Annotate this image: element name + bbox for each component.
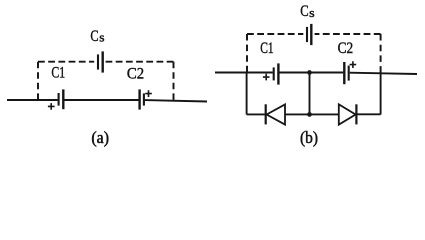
dashed box (circuit b), top-right segment (315, 33, 381, 35)
capacitor C2 (circuit b) (344, 61, 356, 84)
wire: circuit (b) bottom line, middle segment (285, 113, 339, 115)
svg-text:s: s (309, 6, 315, 20)
svg-text:C1: C1 (51, 65, 65, 82)
wire: circuit (b) rectifier loop left vertical (246, 73, 248, 115)
svg-text:C1: C1 (260, 40, 273, 57)
dashed equivalent-capacitance box (circuit b), left vertical wire (246, 34, 248, 73)
junction node: bottom of center branch (circuit b) (307, 112, 312, 117)
wire: circuit (b) bottom line, left segment (247, 113, 265, 115)
dashed box (circuit a), right vertical wire (173, 62, 175, 100)
wire: circuit (a) main line, left segment (7, 99, 58, 101)
wire: circuit (a) main line, right segment (145, 100, 207, 101)
dashed box (circuit b), right vertical wire (380, 34, 382, 73)
wire: circuit (b) rectifier loop right vertical (380, 73, 382, 114)
svg-text:C: C (300, 3, 308, 20)
dashed equivalent-capacitance box (circuit a), left vertical wire (37, 62, 39, 100)
wire: circuit (b) main line, right segment (350, 73, 417, 74)
svg-text:C2: C2 (338, 40, 354, 57)
capacitor C1 (circuit a) (48, 89, 63, 109)
svg-text:C2: C2 (127, 66, 144, 83)
wire: circuit (b) main line, middle segment between C1 and C2 (279, 72, 343, 74)
wire: circuit (b) bottom line, right segment (357, 113, 380, 115)
capacitor C1 (circuit b) (263, 63, 279, 84)
capacitor Cs (circuit b), in dashed top edge (307, 24, 311, 45)
svg-text:(a): (a) (91, 128, 109, 147)
svg-text:s: s (99, 31, 104, 45)
wire: circuit (b) center vertical branch (309, 73, 311, 115)
dashed box (circuit b), top-left segment (247, 33, 303, 35)
wire: circuit (b) main line, left segment (215, 72, 273, 74)
diode D1 (circuit b, left, pointing left) (266, 104, 285, 124)
svg-text:C: C (90, 28, 98, 45)
svg-text:(b): (b) (300, 128, 318, 147)
dashed box (circuit a), top-right segment (106, 61, 174, 63)
capacitor C2 (circuit a) (140, 89, 152, 109)
dashed box (circuit a), top-left segment (38, 61, 94, 63)
junction node: top of center branch (circuit b) (307, 70, 312, 75)
wire: circuit (a) main line, middle segment between C1 and C2 (64, 99, 138, 101)
capacitor Cs (circuit a), in dashed top edge (98, 51, 103, 72)
diode D2 (circuit b, right, pointing right) (339, 104, 357, 124)
